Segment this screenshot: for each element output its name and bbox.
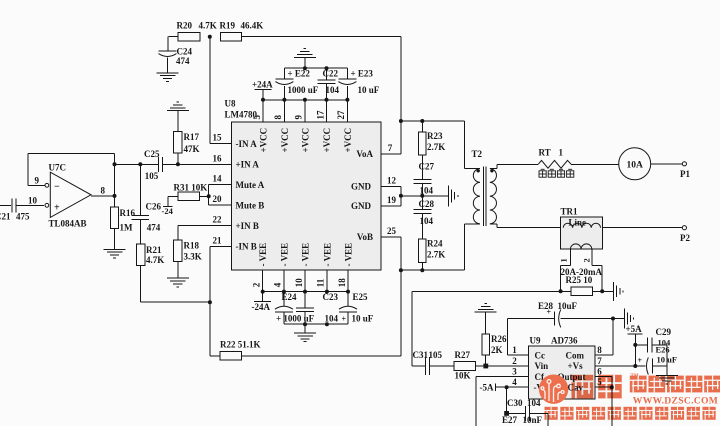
svg-text:104: 104 xyxy=(326,85,340,95)
terminal P1 xyxy=(682,162,686,166)
svg-text:16: 16 xyxy=(213,153,223,163)
pin 6 xyxy=(595,376,612,378)
node +VCC bus junction xyxy=(261,98,265,102)
node xyxy=(610,385,614,389)
svg-text:10: 10 xyxy=(28,195,38,205)
node output junction xyxy=(113,194,117,198)
pin 2 xyxy=(262,270,264,291)
watermark text weiku xyxy=(572,375,594,399)
power -24 xyxy=(167,196,169,206)
svg-text:15: 15 xyxy=(213,133,223,143)
svg-text:105: 105 xyxy=(145,171,159,181)
svg-text:+: + xyxy=(547,307,552,316)
svg-text:+: + xyxy=(638,356,643,365)
ground xyxy=(167,102,189,111)
svg-text:+: + xyxy=(342,315,347,324)
pin 1 xyxy=(569,249,571,265)
wire xyxy=(612,319,614,356)
svg-text:1: 1 xyxy=(559,148,564,158)
wire xyxy=(401,269,464,271)
wire xyxy=(571,163,619,165)
pin 5 xyxy=(262,100,264,122)
node xyxy=(325,322,329,326)
capacitor C22 xyxy=(326,68,328,80)
pin 18 xyxy=(347,270,349,291)
svg-text:8: 8 xyxy=(273,115,283,120)
secondary coil xyxy=(490,169,497,224)
svg-text:+VCC: +VCC xyxy=(343,128,353,153)
node xyxy=(600,289,604,293)
capacitor E24 xyxy=(283,292,285,306)
svg-text:2: 2 xyxy=(252,282,262,287)
resistor R19 xyxy=(221,32,242,41)
node xyxy=(303,322,307,326)
svg-text:R23: R23 xyxy=(427,131,443,141)
svg-text:20: 20 xyxy=(213,194,223,204)
resistor R24 xyxy=(418,239,426,262)
svg-text:-24: -24 xyxy=(162,206,174,216)
node xyxy=(504,411,509,416)
pin 8 xyxy=(283,100,285,122)
capacitor C29 xyxy=(635,344,647,346)
wire xyxy=(603,227,683,229)
node polarity dot xyxy=(490,169,493,172)
node xyxy=(633,364,637,368)
capacitor C28 xyxy=(421,196,423,210)
node xyxy=(303,66,307,70)
svg-text:C23: C23 xyxy=(323,292,339,302)
pin 2 xyxy=(591,249,593,265)
svg-text:E25: E25 xyxy=(353,292,369,302)
node C26 branch xyxy=(138,162,142,166)
svg-text:E26: E26 xyxy=(656,344,670,354)
node -VEE bus junction xyxy=(261,290,265,294)
wire xyxy=(210,245,232,247)
resistor R17 xyxy=(177,111,179,132)
ground xyxy=(104,249,126,258)
capacitor C26 xyxy=(139,164,141,215)
svg-text:C21: C21 xyxy=(0,212,11,222)
svg-text:RT: RT xyxy=(539,148,551,158)
wire xyxy=(208,185,210,206)
ground xyxy=(304,57,306,68)
resistor R31 xyxy=(168,195,178,197)
svg-text:- VEE: - VEE xyxy=(279,243,289,267)
svg-text:46.4K: 46.4K xyxy=(241,21,264,31)
svg-text:5: 5 xyxy=(252,115,262,120)
node R17 junction xyxy=(176,162,180,166)
ground xyxy=(157,73,179,82)
svg-text:- VEE: - VEE xyxy=(258,243,268,267)
svg-text:7: 7 xyxy=(597,356,602,366)
wire xyxy=(91,195,115,197)
svg-text:C29: C29 xyxy=(656,327,672,337)
svg-text:474: 474 xyxy=(176,56,190,66)
svg-text:+VCC: +VCC xyxy=(300,128,310,153)
meter 10A xyxy=(619,148,651,180)
svg-text:2.7K: 2.7K xyxy=(427,142,445,152)
svg-text:3: 3 xyxy=(512,366,517,376)
svg-text:U9: U9 xyxy=(530,336,541,346)
svg-text:10A: 10A xyxy=(627,160,644,170)
svg-text:R19: R19 xyxy=(220,21,236,31)
svg-text:C26: C26 xyxy=(146,201,162,211)
svg-text:9: 9 xyxy=(294,115,304,120)
ground xyxy=(449,185,458,206)
wire xyxy=(209,204,232,206)
wire xyxy=(490,168,497,170)
svg-text:11: 11 xyxy=(316,278,326,287)
svg-text:C22: C22 xyxy=(323,69,339,79)
resistor RT 1 xyxy=(538,160,571,168)
svg-text:19: 19 xyxy=(387,195,397,205)
node -VEE bus junction xyxy=(325,290,329,294)
svg-text:Com: Com xyxy=(566,350,585,360)
svg-text:Cc: Cc xyxy=(535,350,546,360)
svg-text:C24: C24 xyxy=(177,46,193,56)
wire xyxy=(490,223,497,225)
pin 1 xyxy=(507,354,528,356)
svg-text:R25 10: R25 10 xyxy=(566,275,593,285)
svg-text:+VCC: +VCC xyxy=(322,128,332,153)
svg-text:+ 1000 uF: + 1000 uF xyxy=(276,314,315,324)
node -VEE bus junction xyxy=(346,290,350,294)
svg-text:R18: R18 xyxy=(184,240,200,250)
svg-text:GND: GND xyxy=(351,182,372,192)
ground xyxy=(656,375,678,384)
svg-text:2: 2 xyxy=(582,258,592,262)
wire xyxy=(381,236,401,238)
capacitor E23 xyxy=(346,68,348,79)
node VoA branch xyxy=(399,119,403,123)
svg-text:474: 474 xyxy=(147,222,161,232)
node feedback junction xyxy=(113,162,117,166)
label manganin wound xyxy=(539,169,546,177)
capacitor E25 xyxy=(347,292,349,306)
svg-text:104: 104 xyxy=(420,216,434,226)
svg-text:10nF: 10nF xyxy=(523,415,543,425)
svg-text:14: 14 xyxy=(213,174,223,184)
svg-text:2.7K: 2.7K xyxy=(427,250,445,260)
svg-text:+: + xyxy=(54,202,60,213)
wire xyxy=(381,205,401,207)
svg-text:AD736: AD736 xyxy=(551,336,578,346)
node xyxy=(505,385,509,389)
svg-text:C25: C25 xyxy=(144,149,160,159)
svg-text:R21: R21 xyxy=(146,245,162,255)
wire xyxy=(263,291,348,293)
svg-text:T2: T2 xyxy=(472,149,483,159)
ground xyxy=(624,309,633,329)
pin 9 xyxy=(304,100,306,122)
op-amp U7C xyxy=(50,172,91,217)
svg-text:9: 9 xyxy=(35,176,40,186)
node GND junction xyxy=(399,194,403,198)
svg-text:1: 1 xyxy=(512,345,517,355)
svg-text:-IN B: -IN B xyxy=(236,242,257,252)
svg-text:Vin: Vin xyxy=(535,361,549,371)
wire xyxy=(400,37,402,154)
wire xyxy=(381,185,401,187)
wire xyxy=(401,120,464,122)
node +VCC bus junction xyxy=(345,98,349,102)
svg-text:P2: P2 xyxy=(680,233,690,243)
node pin21 junction xyxy=(208,300,212,304)
resistor R22 xyxy=(210,355,220,357)
svg-text:R31 10K: R31 10K xyxy=(174,182,208,192)
wire xyxy=(209,184,232,186)
svg-text:TL084AB: TL084AB xyxy=(49,219,87,229)
resistor R21 xyxy=(137,244,145,265)
svg-text:10K: 10K xyxy=(455,371,471,381)
capacitor E22 xyxy=(283,68,285,79)
svg-text:22: 22 xyxy=(213,215,223,225)
resistor R20 xyxy=(168,36,178,38)
op-amp U9 AD736 xyxy=(528,346,595,399)
svg-text:- VEE: - VEE xyxy=(343,243,353,267)
capacitor C21 xyxy=(0,204,11,206)
svg-text:TR1: TR1 xyxy=(561,207,579,217)
svg-text:12: 12 xyxy=(387,175,397,185)
node -VEE bus junction xyxy=(282,290,286,294)
wire xyxy=(284,67,347,69)
watermark slogan xyxy=(545,407,558,420)
svg-text:C27: C27 xyxy=(419,162,435,172)
wire xyxy=(284,323,348,325)
node VoB junction xyxy=(399,268,403,272)
svg-text:WWW.DZSC.COM: WWW.DZSC.COM xyxy=(633,395,718,406)
wire xyxy=(163,163,231,165)
node +VCC bus junction xyxy=(282,98,286,102)
capacitor C27 xyxy=(413,178,431,180)
op-amp U8 LM4780 xyxy=(231,122,381,270)
svg-text:+5A: +5A xyxy=(626,324,643,334)
svg-text:R22 51.1K: R22 51.1K xyxy=(220,339,261,349)
svg-text:47K: 47K xyxy=(184,144,200,154)
wire xyxy=(400,270,402,356)
svg-text:- VEE: - VEE xyxy=(300,243,310,267)
node R20/R19 junction xyxy=(208,35,212,39)
svg-text:+ E22: + E22 xyxy=(288,69,311,79)
svg-text:R20: R20 xyxy=(177,21,193,31)
svg-text:+VCC: +VCC xyxy=(258,128,268,153)
pin 7 xyxy=(595,365,636,367)
svg-text:4.7K: 4.7K xyxy=(199,21,217,31)
svg-text:10 uF: 10 uF xyxy=(358,85,380,95)
wire xyxy=(411,291,413,366)
pin 4 xyxy=(283,270,285,291)
svg-text:25: 25 xyxy=(387,226,397,236)
wire xyxy=(28,153,114,155)
wire xyxy=(506,319,508,356)
svg-text:2: 2 xyxy=(512,356,517,366)
node xyxy=(325,66,329,70)
capacitor C24 xyxy=(167,37,169,51)
pin 2 xyxy=(486,365,529,367)
svg-text:8: 8 xyxy=(597,345,602,355)
svg-text:104: 104 xyxy=(325,314,339,324)
svg-text:C30: C30 xyxy=(507,398,523,408)
svg-text:C28: C28 xyxy=(419,199,435,209)
svg-text:Mute A: Mute A xyxy=(236,180,265,190)
svg-text:10: 10 xyxy=(294,278,304,288)
pin 27 xyxy=(346,100,348,122)
svg-text:GND: GND xyxy=(351,201,372,211)
svg-text:Mute B: Mute B xyxy=(236,200,265,210)
svg-text:17: 17 xyxy=(315,110,325,120)
svg-text:+Vs: +Vs xyxy=(568,361,584,371)
svg-text:4.7K: 4.7K xyxy=(146,255,164,265)
svg-text:10 uF: 10 uF xyxy=(657,354,678,364)
wire xyxy=(140,265,142,302)
svg-text:R17: R17 xyxy=(184,132,200,142)
node polarity dot xyxy=(477,169,480,172)
svg-text:R26: R26 xyxy=(491,334,507,344)
resistor R16 xyxy=(110,207,118,229)
svg-text:1M: 1M xyxy=(120,223,134,233)
node xyxy=(483,364,488,369)
ground xyxy=(614,282,623,301)
svg-text:−: − xyxy=(54,181,60,192)
pin 3 xyxy=(476,376,528,378)
node +VCC bus junction xyxy=(303,98,307,102)
svg-text:1: 1 xyxy=(559,258,569,262)
svg-text:U8: U8 xyxy=(225,99,236,109)
svg-text:-24A: -24A xyxy=(252,302,271,312)
resistor R26 xyxy=(485,312,487,334)
capacitor C23 xyxy=(304,292,306,308)
ground xyxy=(304,324,306,333)
secondary winding xyxy=(570,244,591,249)
resistor R23 xyxy=(421,121,423,132)
ground xyxy=(475,304,497,313)
svg-text:-5A: -5A xyxy=(480,383,494,393)
svg-text:8: 8 xyxy=(101,186,106,196)
svg-text:+VCC: +VCC xyxy=(280,128,290,153)
svg-text:475: 475 xyxy=(16,212,30,222)
node xyxy=(420,194,424,198)
svg-text:4: 4 xyxy=(512,377,517,387)
watermark logo xyxy=(539,375,568,404)
svg-text:R24: R24 xyxy=(427,239,443,249)
node xyxy=(633,343,637,347)
svg-text:+24A: +24A xyxy=(252,80,273,90)
svg-text:VoA: VoA xyxy=(356,149,373,159)
pin 4 xyxy=(495,386,528,388)
svg-text:2K: 2K xyxy=(491,345,503,355)
node +VCC bus junction xyxy=(325,98,329,102)
svg-text:7: 7 xyxy=(388,143,393,153)
terminal P2 xyxy=(682,226,686,230)
wire xyxy=(115,163,159,165)
svg-text:+IN A: +IN A xyxy=(236,160,260,170)
svg-text:104: 104 xyxy=(420,186,434,196)
power -24A xyxy=(262,292,264,302)
svg-text:3.3K: 3.3K xyxy=(184,251,202,261)
node xyxy=(611,317,615,321)
svg-text:R27: R27 xyxy=(455,350,471,360)
svg-text:R16: R16 xyxy=(120,208,136,218)
svg-text:18: 18 xyxy=(337,278,347,288)
svg-text:+IN B: +IN B xyxy=(236,221,259,231)
svg-text:-IN A: -IN A xyxy=(236,139,258,149)
svg-text:21: 21 xyxy=(213,235,223,245)
pin 17 xyxy=(326,100,328,122)
ground xyxy=(167,278,189,287)
node R23 junction xyxy=(420,119,424,123)
svg-text:Line: Line xyxy=(569,217,587,227)
resistor R18 xyxy=(178,225,232,227)
wire xyxy=(28,184,45,186)
node -VEE bus junction xyxy=(303,290,307,294)
node R24 junction xyxy=(420,268,424,272)
wire xyxy=(209,37,211,144)
svg-text:10 uF: 10 uF xyxy=(352,314,374,324)
pin 5 xyxy=(595,386,612,388)
wire xyxy=(263,99,347,101)
svg-text:C31: C31 xyxy=(413,350,429,360)
pin 11 xyxy=(326,270,328,291)
svg-text:E27: E27 xyxy=(502,415,518,425)
core xyxy=(482,167,484,227)
capacitor C25 xyxy=(157,157,159,172)
svg-text:1000 uF: 1000 uF xyxy=(288,85,319,95)
svg-text:105: 105 xyxy=(429,350,443,360)
svg-text:E24: E24 xyxy=(282,292,298,302)
svg-text:U7C: U7C xyxy=(49,163,67,173)
svg-text:- VEE: - VEE xyxy=(322,243,332,267)
pin 10 xyxy=(304,270,306,291)
wire xyxy=(506,387,508,413)
node xyxy=(559,289,563,293)
svg-text:4: 4 xyxy=(273,282,283,287)
watermark text electronic market xyxy=(630,376,647,393)
wire xyxy=(651,163,683,165)
node R31 junction xyxy=(207,194,211,198)
svg-text:VoB: VoB xyxy=(357,232,373,242)
resistor R27 xyxy=(454,362,476,371)
wire xyxy=(401,195,449,197)
svg-text:27: 27 xyxy=(336,110,346,120)
svg-text:+ E23: + E23 xyxy=(351,69,374,79)
svg-text:P1: P1 xyxy=(680,169,690,179)
wire xyxy=(114,154,116,208)
